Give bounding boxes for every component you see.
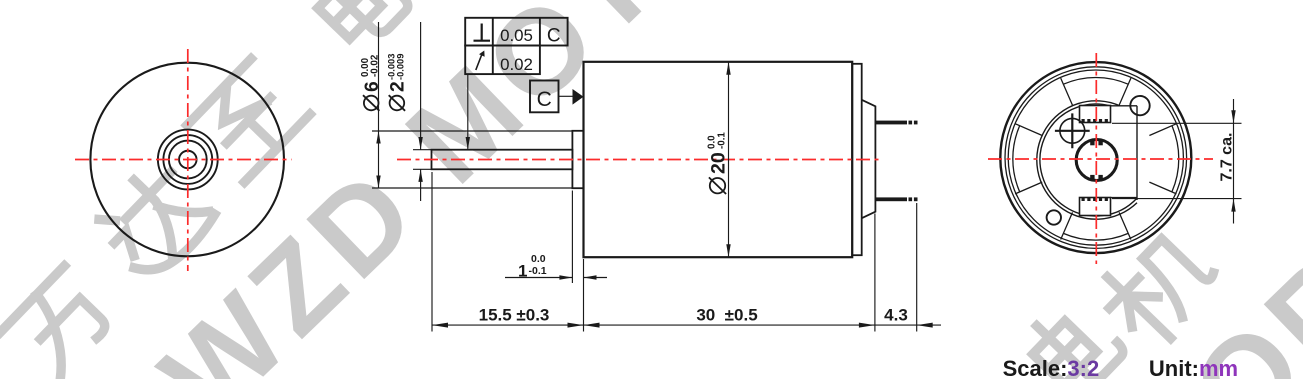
svg-text:-0.02: -0.02 bbox=[369, 54, 380, 77]
ext line cap face bbox=[874, 214, 876, 332]
phi20 label bbox=[706, 132, 729, 194]
arrowheads bbox=[376, 62, 1235, 328]
svg-text:30 ±0.5: 30 ±0.5 bbox=[696, 306, 757, 325]
watermark char 电 (line1) bbox=[306, 0, 412, 53]
svg-text:0.0: 0.0 bbox=[531, 253, 546, 265]
watermark char 至 bbox=[186, 58, 310, 182]
phi6 label bbox=[360, 54, 383, 111]
svg-text:Unit:mm: Unit:mm bbox=[1149, 356, 1238, 379]
phi20 dim line bbox=[728, 62, 730, 257]
rear terminal rect top bbox=[1080, 106, 1111, 216]
svg-text:2: 2 bbox=[388, 81, 409, 92]
small hole bottom left bbox=[1047, 210, 1061, 224]
rear window slant lines bbox=[1015, 78, 1176, 239]
end cap face bbox=[862, 100, 876, 218]
svg-text:4.3: 4.3 bbox=[884, 306, 908, 325]
watermark char 电 (line2 bottom right) bbox=[1021, 294, 1127, 379]
phi2 label bbox=[387, 54, 409, 111]
watermark char 机 (line2 bottom right) bbox=[1093, 222, 1224, 354]
svg-text:7.7 ca.: 7.7 ca. bbox=[1219, 133, 1236, 182]
side view centerline bbox=[397, 159, 880, 161]
rear terminal serrations bottom bbox=[1082, 198, 1109, 202]
motor body bbox=[584, 62, 853, 257]
rear outer circle bbox=[1000, 62, 1191, 253]
phi6 dim line bbox=[378, 22, 380, 188]
hub ring bbox=[1076, 140, 1117, 181]
rear view vertical centerline bbox=[1095, 53, 1097, 264]
ext line boss left bbox=[571, 191, 573, 284]
svg-text:20: 20 bbox=[708, 152, 730, 174]
shaft bbox=[432, 150, 573, 170]
svg-text:C: C bbox=[547, 26, 561, 47]
rear terminal serrations top bbox=[1082, 119, 1109, 123]
end cap ring bbox=[852, 64, 862, 255]
dim 1 leader left bbox=[505, 277, 572, 279]
rear dim line 7.7 bbox=[1233, 99, 1235, 224]
card top-right edge bbox=[1110, 105, 1137, 107]
brush card inner arc bbox=[1040, 104, 1137, 216]
rear terminal rect bottom bbox=[1080, 198, 1111, 216]
ext line shaft end bbox=[431, 172, 433, 332]
watermark char 达 bbox=[90, 158, 218, 286]
main dim line bbox=[432, 324, 917, 326]
rear ext lines bbox=[1112, 122, 1242, 124]
svg-text:-0.1: -0.1 bbox=[529, 265, 547, 277]
ext lines phi2 bbox=[413, 149, 432, 151]
svg-text:C: C bbox=[537, 88, 552, 111]
card bottom-right edge bbox=[1111, 197, 1138, 199]
phi2 dim line segments bbox=[420, 22, 422, 150]
datum box bbox=[530, 81, 559, 113]
rear rim circle 1 bbox=[1005, 67, 1187, 249]
runout symbol bbox=[476, 54, 482, 70]
screw with cross bbox=[1047, 96, 1150, 225]
runout arrowhead bbox=[479, 51, 485, 57]
front view bearing ring 2 bbox=[163, 135, 212, 184]
hub clip tabs bbox=[1090, 140, 1103, 180]
datum triangle bbox=[573, 89, 584, 105]
front view vertical centerline bbox=[187, 49, 189, 271]
brush card outer arc bbox=[1037, 101, 1137, 219]
front view outer circle bbox=[90, 63, 284, 257]
small hole top right bbox=[1130, 96, 1149, 115]
rear window arcs r81.3 bbox=[1013, 77, 1179, 240]
svg-text:0.02: 0.02 bbox=[500, 55, 533, 74]
ext line terminal end bbox=[916, 203, 918, 332]
svg-text:-0.009: -0.009 bbox=[396, 54, 406, 80]
svg-text:15.5 ±0.3: 15.5 ±0.3 bbox=[479, 306, 550, 325]
ext lines phi6 bbox=[372, 130, 572, 132]
svg-text:1: 1 bbox=[518, 262, 527, 281]
front view bearing ring 3 bbox=[169, 141, 207, 179]
svg-text:0.05: 0.05 bbox=[500, 26, 533, 45]
svg-text:Scale:3:2: Scale:3:2 bbox=[1003, 356, 1100, 379]
ext line body left bbox=[583, 259, 585, 332]
4.3 tail bbox=[917, 324, 941, 326]
dim 1 leader right bbox=[584, 277, 608, 279]
front view bearing ring 1 bbox=[158, 130, 218, 190]
perpendicularity symbol bbox=[474, 24, 491, 41]
front view horizontal centerline bbox=[75, 159, 292, 161]
svg-text:6: 6 bbox=[362, 81, 383, 92]
rear rim circle 2 bbox=[1008, 70, 1183, 245]
svg-text:-0.1: -0.1 bbox=[716, 132, 727, 149]
rear view horizontal centerline bbox=[988, 158, 1213, 160]
front view shaft circle bbox=[179, 151, 197, 169]
terminal top (side view) bbox=[875, 121, 917, 125]
datum leader bbox=[559, 95, 573, 97]
FCF leader bbox=[467, 74, 469, 150]
shaft boss bbox=[572, 131, 583, 188]
watermark char 万 bbox=[0, 266, 122, 379]
card right flat bbox=[1136, 106, 1138, 200]
terminal bottom (side view) bbox=[875, 197, 917, 201]
